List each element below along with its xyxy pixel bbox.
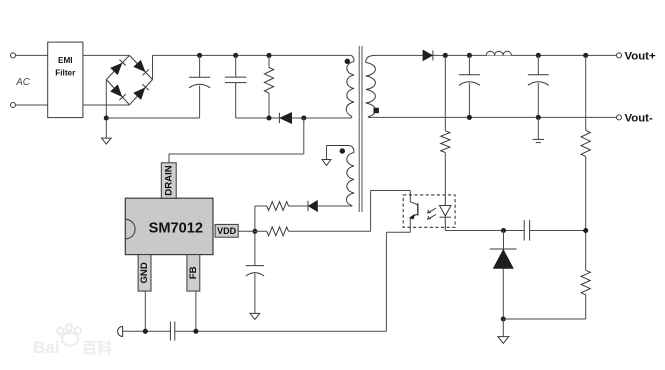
- svg-text:GND: GND: [139, 262, 150, 283]
- svg-text:Bai: Bai: [33, 338, 59, 357]
- svg-text:EMI: EMI: [58, 56, 73, 65]
- svg-text:Vout+: Vout+: [625, 51, 656, 63]
- svg-text:DRAIN: DRAIN: [163, 165, 174, 195]
- svg-text:百科: 百科: [82, 339, 112, 357]
- svg-text:Vout-: Vout-: [625, 113, 653, 125]
- svg-text:VDD: VDD: [217, 226, 237, 236]
- svg-text:AC: AC: [15, 77, 31, 88]
- svg-text:FB: FB: [188, 266, 199, 279]
- svg-text:Filter: Filter: [55, 69, 76, 78]
- svg-text:SM7012: SM7012: [149, 221, 203, 237]
